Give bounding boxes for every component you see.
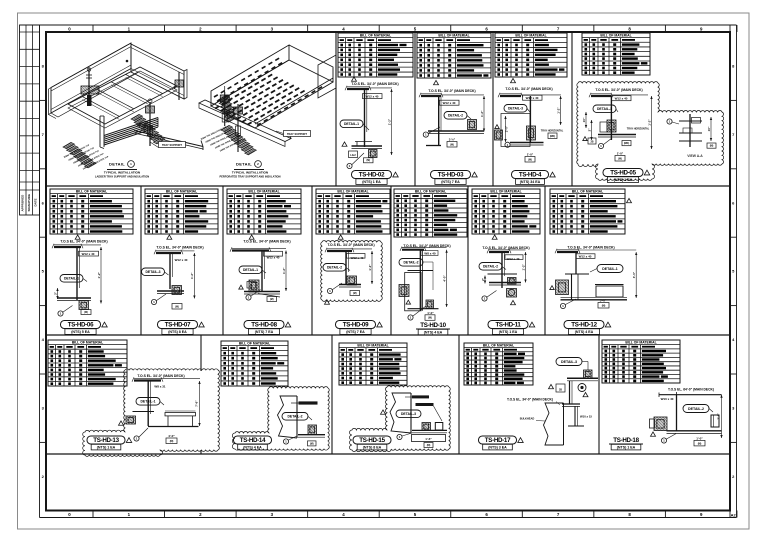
clamp TS-HD-14 [308, 425, 317, 435]
svg-text:1'-6": 1'-6" [425, 437, 432, 441]
size label TS-HD-12 [576, 254, 595, 259]
svg-text:(M): (M) [602, 304, 606, 307]
iso hanger rod 2 [146, 99, 155, 146]
bulkhead TS-HD-14 [278, 396, 298, 438]
delta triangle TS-HD-04 [511, 78, 516, 82]
svg-text:(MK): (MK) [624, 142, 630, 145]
clamp block TS-HD-09 [347, 276, 357, 285]
hanger rod TS-HD-11 [502, 252, 504, 288]
title TS-HD-05 [603, 169, 650, 183]
circled 1 TS-HD-11 [482, 291, 497, 302]
title TS-HD-17 [479, 436, 524, 450]
svg-text:2B: 2B [559, 388, 562, 391]
bulkhead label TS-HD-17 [520, 417, 545, 422]
delta triangle TS-HD-03 [434, 80, 439, 84]
svg-text:(M): (M) [366, 159, 370, 162]
svg-text:(NTS) 4 EA: (NTS) 4 EA [243, 446, 262, 450]
view label TS-HD-05 [687, 154, 703, 158]
BOM table TS-HD-17 [464, 343, 533, 385]
size label TS-HD-06 [82, 252, 95, 256]
right dim TS-HD-18 [717, 395, 723, 438]
tray line TS-HD-04 [510, 143, 544, 146]
svg-text:TS-HD-18: TS-HD-18 [613, 437, 639, 444]
tray box TS-HD-12 [595, 285, 624, 298]
center clamp TS-HD-04 [527, 126, 536, 140]
hanger channel TS-HD-03 [439, 96, 441, 145]
title TS-HD-15 [353, 436, 391, 450]
svg-text:T.O.S EL. 34'-0" (MAIN DECK): T.O.S EL. 34'-0" (MAIN DECK) [595, 88, 642, 92]
svg-text:(M): (M) [170, 440, 174, 443]
svg-text:W12 x 40: W12 x 40 [82, 252, 95, 256]
beam label TS-HD-18 [668, 387, 714, 391]
bottom dim TS-HD-12 [598, 298, 609, 308]
steel beam TS-HD-18 [659, 392, 722, 397]
callout DETAIL-3 TS-HD-04 [504, 105, 530, 113]
left delta TS-HD-05 [583, 137, 596, 144]
svg-text:TS-HD-11: TS-HD-11 [495, 322, 521, 329]
title TS-HD-18 [609, 437, 643, 450]
iso insulated tray bundle lower left [104, 118, 158, 146]
revision sidebar table [20, 25, 40, 215]
main drawing border [46, 32, 730, 511]
title TS-HD-14 [234, 436, 272, 450]
tray support label TS-HD-15 [416, 403, 443, 421]
svg-text:VIEW A-A: VIEW A-A [687, 154, 703, 158]
steel beam TS-HD-03 [419, 93, 484, 97]
beam label TS-HD-17 [507, 397, 560, 405]
title TS-HD-06 [61, 321, 108, 335]
left iso support angle [134, 131, 203, 151]
delta triangle TS-HD-11 [492, 235, 497, 239]
svg-text:TRAY SUPPORT: TRAY SUPPORT [162, 143, 182, 147]
svg-text:DETAIL-3: DETAIL-3 [561, 360, 577, 364]
svg-text:TS-HD-15: TS-HD-15 [359, 437, 385, 444]
svg-text:2B: 2B [250, 284, 253, 287]
hanger rod TS-HD-13 [148, 381, 150, 427]
circled 1 TS-HD-14 [283, 436, 297, 444]
svg-text:W12 x 40: W12 x 40 [615, 97, 628, 101]
callout DETAIL-1 TS-HD-08 [239, 266, 266, 274]
svg-text:W10 x 15: W10 x 15 [580, 414, 592, 418]
svg-text:4'-0": 4'-0" [442, 275, 446, 282]
svg-text:BILL OF MATERIAL: BILL OF MATERIAL [415, 190, 446, 194]
svg-text:TS-HD-13: TS-HD-13 [93, 437, 119, 444]
delta TS-HD-18 [651, 432, 656, 436]
svg-text:T.O.S EL. 34'-0" (MAIN DECK): T.O.S EL. 34'-0" (MAIN DECK) [428, 89, 475, 93]
svg-text:5'-0": 5'-0" [600, 298, 607, 302]
svg-text:W10 x 40: W10 x 40 [661, 397, 674, 401]
bracket left TS-HD-18 [650, 417, 668, 431]
svg-text:TS-HD-12: TS-HD-12 [571, 322, 597, 329]
size label TS-HD-17 [580, 414, 592, 418]
svg-text:TS-HD-17: TS-HD-17 [485, 437, 511, 444]
BOM table TS-HD-07 [145, 189, 218, 234]
ruler tick marks top/bottom [93, 25, 737, 518]
left delta TS-HD-17 [549, 384, 566, 392]
note TRAY HORIZONTAL TS-HD-04 [541, 130, 564, 139]
ruler numbers top [68, 27, 703, 32]
BOM table TS-HD-12 [550, 189, 625, 234]
svg-text:W12 x 40: W12 x 40 [175, 258, 188, 262]
steel beam TS-HD-10 [400, 247, 447, 251]
iso hatch cluster mid [131, 114, 165, 143]
circled 1 main TS-HD-05 [598, 138, 612, 149]
callout DETAIL-1 TS-HD-02 [340, 120, 369, 130]
svg-text:BILL OF MATERIAL: BILL OF MATERIAL [337, 190, 368, 194]
svg-text:(NTS) 1 EA: (NTS) 1 EA [614, 178, 633, 182]
m box TS-HD-06 [81, 310, 91, 315]
svg-text:BILL OF MATERIAL: BILL OF MATERIAL [239, 342, 270, 346]
svg-text:(M): (M) [450, 143, 454, 146]
callout DETAIL-2 TS-HD-11 [479, 263, 506, 271]
steel beam TS-HD-06 [52, 244, 101, 248]
svg-text:TRAY HORIZONTAL: TRAY HORIZONTAL [627, 128, 650, 131]
svg-text:1'-2": 1'-2" [480, 110, 484, 117]
delta triangle TS-HD-09 [338, 235, 343, 239]
svg-text:TS-HD-10: TS-HD-10 [420, 322, 446, 329]
clamp B TS-HD-15 [435, 423, 443, 431]
svg-text:1'-2": 1'-2" [190, 272, 194, 279]
svg-text:BILL OF MATERIAL: BILL OF MATERIAL [360, 34, 391, 38]
revision cloud TS-HD-09 [321, 241, 383, 302]
svg-text:TS-HD-14: TS-HD-14 [240, 437, 266, 444]
svg-text:DETAIL-2: DETAIL-2 [287, 415, 302, 419]
svg-text:TS-HD-05: TS-HD-05 [610, 170, 636, 177]
svg-text:W12 x 40: W12 x 40 [366, 95, 379, 99]
right dim TS-HD-05 [647, 96, 652, 149]
m box TS-HD-02 [364, 158, 374, 163]
svg-text:(M): (M) [427, 444, 431, 447]
svg-text:DETAIL-2: DETAIL-2 [327, 266, 342, 270]
svg-text:(M): (M) [84, 311, 88, 314]
iso perforated tray near wall [255, 78, 333, 126]
BOM table TS-HD-14 [221, 341, 288, 386]
steel beam TS-HD-12 [555, 249, 636, 253]
beam label TS-HD-13 [137, 374, 184, 378]
svg-text:(M): (M) [353, 292, 357, 295]
dimension TS-HD-07 [190, 253, 195, 299]
svg-text:BILL OF MATERIAL: BILL OF MATERIAL [490, 190, 521, 194]
left clamp TS-HD-13 [126, 416, 136, 424]
title TS-HD-13 [87, 436, 132, 450]
circled 1 TS-HD-18 [661, 434, 676, 444]
svg-text:(NTS) 8 EA: (NTS) 8 EA [363, 446, 382, 450]
steel beam TS-HD-05 [589, 93, 648, 97]
tray angle TS-HD-07 [157, 291, 184, 294]
dimension TS-HD-12 [632, 252, 637, 298]
svg-text:TS-HD-07: TS-HD-07 [165, 322, 191, 329]
clamp block TS-HD-08 [249, 280, 259, 292]
iso view right channel beam [131, 44, 187, 99]
svg-text:TRAY SUPPORT: TRAY SUPPORT [287, 132, 307, 136]
beam label TS-HD-04 [505, 87, 552, 91]
svg-text:(MK): (MK) [550, 135, 556, 138]
circled 1 TS-HD-07 [151, 294, 166, 305]
svg-text:T.O.S EL. 34'-0" (MAIN DECK): T.O.S EL. 34'-0" (MAIN DECK) [156, 246, 203, 250]
svg-text:DETAIL-2: DETAIL-2 [403, 261, 418, 265]
callout DETAIL-2 TS-HD-10 [399, 259, 433, 291]
callout DETAIL-1 TS-HD-12 [590, 265, 623, 273]
top clamp TS-HD-17 [584, 370, 593, 378]
svg-text:7'-6": 7'-6" [195, 400, 199, 407]
tray support label (right iso) [276, 131, 311, 137]
bottom dim TS-HD-13 [166, 434, 177, 444]
tray support lines TS-HD-17 [562, 404, 580, 406]
beam label TS-HD-09 [327, 243, 374, 247]
steel beam TS-HD-02 [345, 86, 392, 90]
m box TS-HD-14 [308, 441, 317, 446]
left frame TS-HD-04 [501, 114, 530, 147]
svg-text:DETAIL-3: DETAIL-3 [597, 107, 612, 111]
svg-text:W12 x 40: W12 x 40 [507, 257, 520, 261]
bottom dim TS-HD-10 [425, 311, 435, 321]
post TS-HD-17 [570, 381, 573, 404]
BOM table TS-HD-05 [582, 33, 650, 75]
svg-text:TS-HD-03: TS-HD-03 [438, 172, 464, 179]
tall frame TS-HD-10 [405, 273, 421, 311]
tray angle TS-HD-09 [339, 285, 361, 288]
cross strut TS-HD-13 [133, 411, 155, 413]
svg-text:(M): (M) [528, 158, 532, 161]
sheet size label A2 [730, 511, 737, 518]
svg-text:(NTS) 34 EA: (NTS) 34 EA [520, 180, 541, 184]
hanger rod TS-HD-07 [170, 253, 172, 289]
w-label box TS-HD-09 [347, 254, 366, 259]
callout DETAIL-3 TS-HD-05 [593, 105, 618, 113]
bottom dim TS-HD-15 [412, 435, 446, 448]
svg-text:APPROVED: APPROVED [21, 194, 25, 212]
tray line TS-HD-15 [412, 430, 447, 432]
svg-text:(M): (M) [618, 157, 622, 160]
beam TS-HD-17 [567, 378, 598, 381]
BOM table TS-HD-11 [472, 189, 540, 234]
beam label TS-HD-08 [243, 240, 290, 244]
iso hanger rod 3 (right end) [173, 72, 183, 100]
svg-text:1'-2": 1'-2" [387, 118, 391, 125]
dim 3half TS-HD-03 [447, 138, 457, 148]
svg-text:TS-HD-06: TS-HD-06 [68, 322, 94, 329]
clamp block TS-HD-11 [508, 278, 517, 285]
svg-text:1'-0": 1'-0" [617, 152, 624, 156]
ladder tray label TS-HD-14 [291, 401, 318, 404]
bulkhead TS-HD-17 [544, 403, 564, 445]
iso hatch cluster left (insulation stack) [63, 142, 96, 168]
circled 1 TS-HD-03 [423, 127, 440, 137]
beam label TS-HD-03 [428, 89, 475, 93]
bottom dim TS-HD-04 [525, 153, 535, 163]
BOM table TS-HD-09 [316, 189, 390, 234]
svg-text:DETAIL-1: DETAIL-1 [140, 400, 155, 404]
svg-text:DETAIL: DETAIL [236, 162, 252, 167]
size label TS-HD-11 [507, 257, 520, 261]
tray base TS-HD-13 [148, 426, 199, 428]
svg-text:W8 x 31: W8 x 31 [154, 385, 166, 389]
delta right TS-HD-11 [511, 300, 516, 304]
svg-text:PERFORATED TRAY SUPPORT AND IN: PERFORATED TRAY SUPPORT AND INSULATION [219, 175, 280, 179]
title TS-HD-09 [336, 321, 383, 335]
delta triangle TS-HD-07 [167, 235, 172, 239]
clamp block TS-HD-03 [468, 120, 477, 130]
callout DETAIL-3 TS-HD-07 [142, 268, 169, 276]
svg-text:W12 x 40: W12 x 40 [579, 255, 592, 259]
ground line TS-HD-03 [426, 145, 441, 147]
svg-text:2'-0": 2'-0" [505, 125, 509, 132]
callout DETAIL-3 TS-HD-17 [556, 358, 588, 371]
iso tray support angle (right iso) [199, 100, 291, 147]
svg-text:1'-2": 1'-2" [521, 263, 525, 270]
bulkhead label TS-HD-15 [405, 395, 429, 398]
svg-text:T.O.S EL. 34'-0" (MAIN DECK): T.O.S EL. 34'-0" (MAIN DECK) [482, 246, 529, 250]
svg-text:DETAIL-1: DETAIL-1 [344, 122, 359, 126]
callout DETAIL-2 TS-HD-03 [444, 112, 471, 120]
svg-text:(NTS) 5 EA: (NTS) 5 EA [71, 330, 90, 334]
revision cloud TS-HD-15 [350, 386, 451, 452]
tray table TS-HD-13 [165, 411, 196, 426]
steel beam TS-HD-08 [230, 247, 286, 251]
iso hatch cluster right-2 [0, 0, 1, 1]
dim box TS-HD-07 [172, 304, 182, 310]
svg-text:1'-2": 1'-2" [368, 264, 372, 271]
BOM table TS-HD-18 [602, 340, 680, 383]
svg-text:SIGNATURE: SIGNATURE [27, 194, 31, 211]
steel beam TS-HD-09 [325, 248, 372, 252]
round clamp TS-HD-11 [507, 289, 517, 298]
dimension TS-HD-06 [97, 247, 102, 304]
hanger rod TS-HD-05 [610, 96, 612, 140]
svg-text:T.O.S EL. 34'-0" (MAIN DECK): T.O.S EL. 34'-0" (MAIN DECK) [351, 82, 398, 86]
size label TS-HD-08 [267, 256, 280, 260]
callout DETAIL-2 TS-HD-09 [323, 264, 350, 272]
view A-A member TS-HD-05 [679, 114, 702, 147]
size label TS-HD-13 [154, 385, 166, 389]
revision cloud TS-HD-13 [83, 369, 220, 457]
callout DETAIL-3 TS-HD-15 [396, 410, 421, 418]
clamp A TS-HD-15 [422, 423, 431, 431]
detail 1 caption [107, 161, 137, 170]
callout DETAIL-1 TS-HD-06 [60, 275, 87, 283]
svg-text:BILL OF MATERIAL: BILL OF MATERIAL [515, 34, 546, 38]
svg-text:4'-0": 4'-0" [168, 434, 175, 438]
svg-text:(M): (M) [428, 317, 432, 320]
svg-text:DETAIL-2: DETAIL-2 [688, 407, 704, 411]
beam label TS-HD-06 [60, 240, 107, 244]
hanger rod TS-HD-12 [575, 252, 577, 274]
tray line TS-HD-18 [667, 431, 722, 434]
svg-text:LADDER TRAY SUPPORT AND INSULA: LADDER TRAY SUPPORT AND INSULATION [95, 175, 149, 179]
size label TS-HD-04 [523, 95, 543, 100]
beam label TS-HD-07 [156, 246, 203, 250]
bottom clamp TS-HD-10 [426, 300, 434, 309]
w-label box TS-HD-08 [264, 251, 283, 256]
clamp block TS-HD-06 [79, 301, 89, 310]
svg-text:W12 x 40: W12 x 40 [443, 101, 456, 105]
hanger rod TS-HD-02 [365, 89, 367, 147]
callout DETAIL-2 TS-HD-14 [282, 413, 312, 421]
support bracket TS-HD-02 [352, 142, 383, 158]
clamp block TS-HD-07 [172, 286, 182, 295]
svg-text:3 ½": 3 ½" [449, 138, 456, 142]
svg-text:BILL OF MATERIAL: BILL OF MATERIAL [438, 34, 469, 38]
iso hatch cluster right-1 [218, 95, 237, 122]
steel beam TS-HD-11 [487, 249, 526, 253]
iso rotated annotation bundle right [200, 126, 247, 153]
left dim TS-HD-05 [582, 112, 587, 128]
top plate TS-HD-12 [565, 273, 589, 275]
hanger rod TS-HD-04 [529, 96, 531, 142]
svg-text:TS-HD-09: TS-HD-09 [343, 322, 369, 329]
svg-text:3'-0": 3'-0" [632, 271, 636, 278]
size label W12x40 TS-HD-02 [363, 94, 383, 99]
title TS-HD-12 [564, 321, 611, 335]
vertical member TS-HD-17 [568, 406, 584, 426]
plate TS-HD-11 [488, 273, 518, 275]
title TS-HD-03 [431, 171, 478, 185]
callout DETAIL-1 TS-HD-13 [136, 398, 164, 406]
right dim view TS-HD-05 [707, 117, 716, 148]
ruler side ticks and letters [40, 64, 737, 479]
bottom row panel dividers [201, 335, 599, 454]
iso perforated tray panel [211, 45, 336, 128]
size label TS-HD-07 [175, 258, 188, 262]
plate TS-HD-10 [408, 270, 434, 272]
w-label box TS-HD-06 [79, 251, 99, 256]
circled 1 TS-HD-12 [560, 299, 576, 309]
svg-text:(NTS) 7 EA: (NTS) 7 EA [255, 330, 274, 334]
left mini dim TS-HD-11 [481, 276, 486, 284]
svg-text:DETAIL-3: DETAIL-3 [401, 412, 416, 416]
BOM table TS-HD-04 [495, 33, 567, 77]
dimension TS-HD-11 [521, 252, 526, 283]
title TS-HD-07 [158, 321, 205, 335]
svg-text:DETAIL-3: DETAIL-3 [508, 107, 523, 111]
circled 1 TS-HD-08 [246, 290, 261, 301]
svg-text:TS-HD-02: TS-HD-02 [359, 172, 385, 179]
svg-text:W8 x 40: W8 x 40 [424, 252, 436, 256]
svg-text:DETAIL-2: DETAIL-2 [483, 265, 498, 269]
svg-text:BILL OF MATERIAL: BILL OF MATERIAL [483, 344, 514, 348]
svg-text:2B: 2B [590, 140, 593, 143]
dimension TS-HD-03 [480, 96, 485, 132]
svg-text:(NTS) 3 EA: (NTS) 3 EA [488, 446, 507, 450]
svg-text:(NTS) 4 EA: (NTS) 4 EA [575, 330, 594, 334]
size label TS-HD-03 [440, 100, 460, 105]
svg-text:(NTS) 1 EA: (NTS) 1 EA [362, 180, 381, 184]
svg-text:BILL OF MATERIAL: BILL OF MATERIAL [625, 341, 656, 345]
delta triangle TS-HD-06 [75, 235, 80, 239]
steel beam TS-HD-07 [154, 250, 194, 254]
BOM table TS-HD-02 [338, 33, 413, 77]
circled 1 TS-HD-15 [397, 433, 412, 440]
circled 1 TS-HD-13 [134, 428, 148, 441]
dimension TS-HD-09 [368, 251, 373, 284]
hanger rod TS-HD-06 [77, 247, 79, 300]
svg-text:1'-0": 1'-0" [527, 153, 534, 157]
bolt hole dot on plate [126, 60, 129, 63]
size label TS-HD-09 [351, 256, 364, 260]
svg-text:(NTS) 1 EA: (NTS) 1 EA [97, 446, 116, 450]
svg-text:DETAIL-3: DETAIL-3 [145, 270, 160, 274]
svg-text:BILL OF MATERIAL: BILL OF MATERIAL [572, 190, 603, 194]
ruler numbers bottom [68, 512, 703, 517]
svg-text:DETAIL: DETAIL [109, 162, 125, 167]
svg-text:BILL OF MATERIAL: BILL OF MATERIAL [76, 190, 107, 194]
lower tray piece TS-HD-08 [258, 294, 280, 302]
bottom dim TS-HD-05 [615, 152, 625, 162]
title TS-HD-04 [512, 171, 556, 185]
title TS-HD-11 [488, 321, 535, 335]
svg-text:1'-0": 1'-0" [696, 436, 703, 440]
detail 2 caption [234, 161, 264, 170]
